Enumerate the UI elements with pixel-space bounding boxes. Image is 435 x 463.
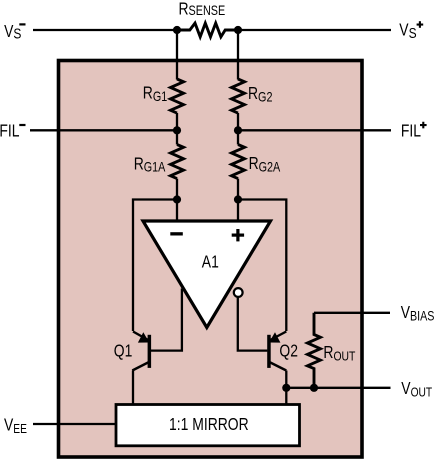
transistor Q1 — [132, 332, 151, 371]
resistor RG1A — [171, 145, 184, 179]
label RG2A — [249, 155, 281, 175]
label RG1A — [134, 155, 166, 175]
label VS- — [4, 22, 21, 41]
svg-text:VOUT: VOUT — [401, 380, 432, 400]
resistor RSENSE — [177, 23, 238, 37]
IC body box — [59, 61, 363, 458]
wire Q2 collector to output node — [285, 371, 287, 388]
wire VBIAS — [314, 312, 390, 314]
node dot - input — [173, 195, 181, 203]
wire FIL- — [30, 129, 177, 131]
label RG2 — [248, 85, 273, 105]
wire RG2 to RG2A — [237, 113, 239, 145]
node dot VS- / RG1 — [173, 26, 181, 34]
svg-text:VS: VS — [4, 22, 21, 41]
minus input sign — [170, 232, 183, 235]
wire amp output to Q2 base — [238, 297, 268, 351]
svg-text:VEE: VEE — [4, 416, 27, 436]
mirror block — [116, 405, 300, 446]
svg-text:FIL: FIL — [0, 122, 20, 141]
plus input sign — [232, 229, 244, 241]
node dot ROUT / VOUT — [310, 384, 318, 392]
resistor ROUT — [307, 313, 320, 388]
wire - node to Q1 emitter — [133, 200, 177, 332]
svg-text:RSENSE: RSENSE — [179, 0, 226, 19]
svg-text:A1: A1 — [202, 253, 219, 272]
op-amp output bubble — [234, 288, 243, 297]
label Q1 — [114, 342, 133, 361]
op-amp A1 — [143, 221, 271, 328]
label FIL+ — [401, 122, 421, 141]
node dot FIL- — [173, 126, 181, 134]
label FIL- — [0, 122, 20, 141]
wire from VS+ node down — [237, 30, 239, 80]
svg-text:VBIAS: VBIAS — [401, 303, 435, 323]
node dot Q2 collector / VOUT — [282, 384, 290, 392]
wire Q1 base to amp — [151, 289, 182, 351]
label Q2 — [279, 342, 298, 361]
svg-text:FIL: FIL — [401, 122, 421, 141]
wire RG1 to RG1A — [176, 113, 178, 145]
label ROUT — [323, 344, 355, 364]
label VOUT — [401, 380, 432, 400]
wire Q1 collector to mirror — [132, 371, 134, 405]
wire RG2A down to + input — [237, 179, 239, 221]
wire VOUT — [286, 387, 390, 389]
wire from VS- node down — [176, 30, 178, 80]
svg-text:Q2: Q2 — [279, 342, 298, 361]
resistor RG1 — [171, 79, 184, 113]
transistor Q2 — [267, 332, 286, 371]
svg-text:Q1: Q1 — [114, 342, 133, 361]
wire RG1A down to - input — [176, 179, 178, 221]
resistor RG2 — [232, 79, 245, 113]
label 1:1 MIRROR — [169, 416, 249, 435]
label A1 — [202, 253, 219, 272]
label RSENSE — [179, 0, 226, 19]
node dot FIL+ — [234, 126, 242, 134]
wire FIL+ — [238, 129, 391, 131]
node dot + input — [234, 195, 242, 203]
wire VEE — [33, 423, 116, 425]
node dot VS+ / RG2 — [234, 26, 242, 34]
wire VS- rail — [33, 29, 177, 31]
svg-text:1:1 MIRROR: 1:1 MIRROR — [169, 416, 249, 435]
label VEE — [4, 416, 27, 436]
label VBIAS — [401, 303, 435, 323]
wire output node into mirror — [285, 388, 287, 405]
label RG1 — [143, 84, 168, 104]
wire + node to Q2 emitter — [238, 200, 286, 332]
svg-text:VS: VS — [399, 21, 416, 41]
resistor RG2A — [232, 145, 245, 179]
label VS+ — [399, 21, 416, 41]
wire VS+ rail — [238, 29, 391, 31]
